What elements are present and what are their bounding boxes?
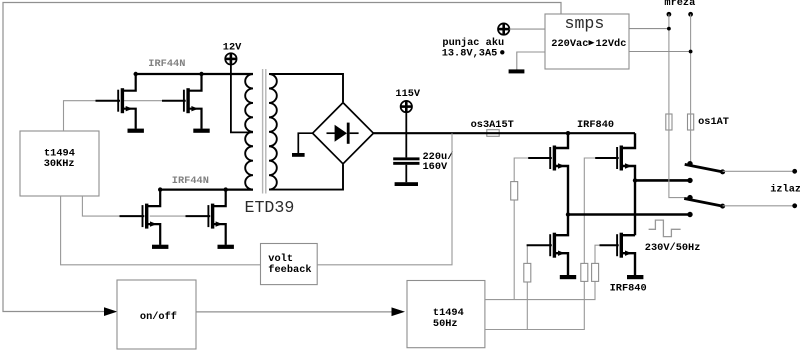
label izlaz — [770, 183, 800, 195]
IC U1 tl494 30KHz box — [20, 131, 99, 196]
wire 12V to transformer center tap — [231, 65, 253, 133]
resistor R4 gate lower-right — [592, 263, 599, 281]
svg-text:ETD39: ETD39 — [245, 198, 295, 217]
resistor R3 gate upper-right — [581, 263, 588, 281]
svg-text:IRF840: IRF840 — [577, 119, 614, 131]
wire mains line 1 to switch pole 2 — [669, 14, 690, 197]
label 230V/50Hz — [645, 242, 701, 254]
svg-text:50Hz: 50Hz — [433, 318, 458, 330]
svg-text:izlaz: izlaz — [770, 183, 800, 195]
transistor Q3 IRF44N lower-left — [120, 190, 161, 245]
switch lever 1 — [685, 161, 725, 174]
svg-text:30KHz: 30KHz — [44, 158, 75, 170]
transistor Q7 IRF840 upper-right — [595, 133, 635, 235]
ground Q2 — [193, 129, 209, 133]
connector symbol punjac aku — [498, 23, 509, 34]
ground Q1 — [128, 129, 144, 133]
label 220u/160V — [423, 151, 454, 173]
label mreza — [664, 0, 695, 9]
fuse os3A15T body — [487, 130, 499, 137]
svg-text:feeback: feeback — [268, 264, 311, 276]
svg-text:volt: volt — [268, 253, 293, 265]
transformer T1 primary winding — [245, 74, 253, 190]
node junction dots lower rail — [158, 187, 228, 191]
wire feedback smps-to-onoff top-left loop — [3, 3, 561, 312]
label IRF44N upper — [148, 58, 185, 70]
wire gate drive from tl494 to upper IRF44N gates — [64, 101, 164, 131]
transistor Q5 IRF840 upper-left — [528, 133, 568, 214]
bridge rectifier D1 diamond — [313, 103, 374, 164]
transistor Q2 IRF44N upper-right — [162, 74, 202, 129]
label IRF840 lower — [610, 283, 647, 295]
ground smps — [509, 69, 525, 73]
wire secondary bottom to bridge — [269, 164, 343, 189]
wire tl494 to volt feeback box — [61, 196, 261, 265]
fuse F2 body left — [666, 114, 672, 130]
svg-text:230V/50Hz: 230V/50Hz — [645, 242, 701, 254]
transistor Q4 IRF44N lower-right — [186, 190, 226, 245]
wire output node B to switch — [633, 178, 693, 183]
node terminal dot 3A5 — [500, 50, 504, 54]
ground Q4 — [218, 245, 234, 249]
wire upper drain rail to transformer primary top — [136, 73, 253, 75]
svg-text:IRF44N: IRF44N — [172, 175, 209, 187]
icon square wave — [649, 220, 681, 237]
block on/off box — [117, 280, 196, 349]
wire izlaz output 2 — [723, 203, 798, 208]
switch lever 2 — [684, 195, 725, 209]
svg-text:160V: 160V — [423, 161, 449, 173]
svg-text:12V: 12V — [223, 41, 242, 53]
transistor Q8 IRF840 lower-right — [600, 233, 636, 276]
transistor Q1 IRF44N upper-left — [96, 74, 136, 129]
node mreza terminals — [667, 12, 693, 17]
transformer T1 core — [263, 69, 266, 194]
node junction dots upper rail — [134, 72, 204, 76]
wire 115V DC rail — [373, 132, 635, 134]
ground capacitor C1 — [395, 182, 418, 186]
transformer T1 secondary winding — [269, 74, 277, 190]
svg-text:IRF840: IRF840 — [610, 283, 647, 295]
wire punjac to smps — [509, 28, 545, 30]
node junction dot rail at Q5 drain — [566, 131, 570, 135]
ground bridge left — [292, 133, 313, 157]
svg-text:on/off: on/off — [140, 311, 177, 323]
ground Q3 — [152, 245, 168, 249]
svg-text:IRF44N: IRF44N — [148, 58, 185, 70]
svg-text:os3A15T: os3A15T — [471, 119, 514, 131]
label os3A15T — [471, 119, 514, 131]
fuse os1AT body — [688, 114, 694, 130]
resistor R2 gate lower-left — [524, 263, 531, 282]
ground Q6 — [560, 275, 576, 279]
wire izlaz output 1 — [723, 169, 798, 174]
block smps box — [545, 14, 629, 69]
IC U2 t1494 50Hz box — [407, 281, 485, 348]
wire W2 drive to upper-right and lower-left gates — [485, 158, 596, 330]
block volt feeback box — [261, 244, 318, 285]
label IRF840 upper — [577, 119, 614, 131]
wire secondary top to bridge — [269, 74, 343, 102]
svg-text:13.8V,3A5: 13.8V,3A5 — [442, 47, 498, 59]
label IRF44N lower — [172, 175, 209, 187]
wire W1 drive to upper-left and lower-right gates — [485, 158, 601, 300]
supply symbol 12V — [223, 41, 242, 64]
resistor R1 gate upper-left — [511, 182, 518, 200]
wire smps input taps — [629, 27, 692, 54]
wire output node A to switch — [566, 212, 693, 217]
label os1AT — [698, 116, 729, 128]
arrowhead into t1494 50Hz box — [392, 307, 406, 316]
svg-text:os1AT: os1AT — [698, 116, 729, 128]
svg-text:12Vdc: 12Vdc — [596, 38, 627, 50]
wire mains line 2 to switch pole 1 — [690, 14, 692, 163]
ground Q8 — [627, 275, 643, 279]
arrowhead into on/off box — [104, 307, 117, 316]
svg-text:220Vac: 220Vac — [551, 38, 588, 50]
svg-text:smps: smps — [565, 14, 605, 33]
wire lower drain rail to transformer primary bottom — [160, 189, 253, 191]
svg-text:mreza: mreza — [664, 0, 695, 9]
wire smps lower-left to ground — [517, 52, 545, 70]
supply symbol 115V — [395, 88, 421, 133]
wire on/off to t1494 50Hz — [196, 311, 392, 313]
wire volt feeback to 115V rail — [317, 133, 452, 265]
capacitor C1 220u/160V — [393, 133, 419, 182]
label punjac aku 13.8V,3A5 — [442, 37, 504, 60]
transistor Q6 IRF840 lower-left — [527, 215, 568, 276]
wire gate drive from tl494 bottom to lower IRF44N gates — [82, 196, 186, 216]
svg-text:115V: 115V — [395, 88, 421, 100]
label ETD39 — [245, 198, 295, 217]
